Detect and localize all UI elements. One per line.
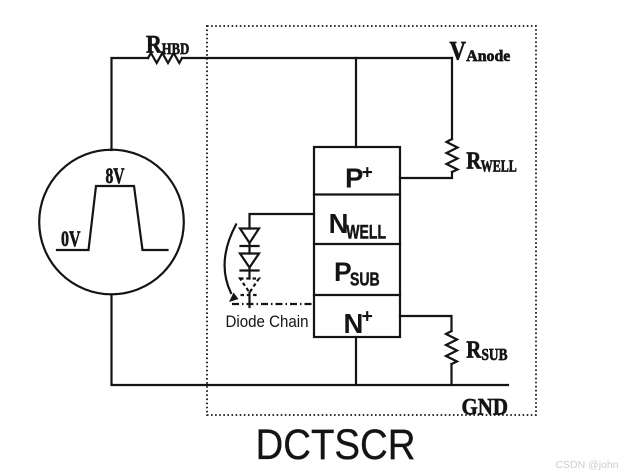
- svg-text:R: R: [146, 31, 163, 58]
- svg-text:0V: 0V: [61, 226, 81, 251]
- diode chain arrow arc: [225, 225, 236, 294]
- svg-text:Anode: Anode: [466, 48, 510, 65]
- DCTSCR dashed boundary box: [207, 26, 536, 415]
- wire R_WELL bottom to P+ right side: [400, 172, 452, 178]
- svg-text:V: V: [450, 36, 467, 66]
- N_WELL/P_SUB boundary: [314, 243, 400, 245]
- wire D3 stub: [248, 293, 250, 308]
- resistor R_HBD: [148, 53, 182, 63]
- svg-text:HBD: HBD: [162, 41, 189, 58]
- svg-text:N: N: [344, 308, 364, 339]
- svg-text:8V: 8V: [106, 163, 125, 188]
- diode D1: [240, 229, 259, 247]
- pulse waveform: [57, 186, 168, 250]
- svg-text:+: +: [362, 162, 373, 183]
- resistor R_SUB: [446, 331, 457, 364]
- svg-text:SUB: SUB: [482, 345, 508, 364]
- wire D1 to D2: [248, 243, 250, 254]
- svg-text:CSDN @john: CSDN @john: [556, 459, 619, 471]
- svg-text:DCTSCR: DCTSCR: [256, 421, 416, 469]
- wire R_HBD to V_Anode node: [182, 57, 452, 59]
- wire source bottom to ground rail: [112, 295, 509, 386]
- wire N+ right to R_SUB: [400, 316, 452, 331]
- svg-text:Diode Chain: Diode Chain: [226, 313, 309, 331]
- wire R_SUB bottom: [450, 364, 452, 385]
- wire anode node down to P+ region: [355, 58, 357, 147]
- voltage pulse source V1: [39, 150, 184, 295]
- svg-text:WELL: WELL: [346, 223, 386, 244]
- svg-text:+: +: [362, 306, 373, 328]
- svg-text:R: R: [466, 337, 481, 364]
- wire source top to R_HBD: [112, 58, 149, 150]
- svg-text:SUB: SUB: [350, 269, 380, 290]
- wire N_WELL left to diode chain: [250, 214, 315, 229]
- wire V_Anode down to R_WELL: [451, 58, 453, 139]
- diode D2: [240, 254, 259, 271]
- resistor R_WELL: [447, 139, 458, 172]
- region stack outer box: [314, 147, 400, 337]
- svg-text:WELL: WELL: [481, 156, 517, 175]
- wire D2 to D3: [248, 268, 250, 279]
- svg-text:P: P: [345, 163, 363, 194]
- wire N+ bottom to ground rail: [355, 337, 357, 385]
- P+/N_WELL boundary: [314, 193, 400, 195]
- svg-text:R: R: [466, 148, 482, 174]
- diode chain arrowhead: [229, 293, 239, 303]
- P_SUB/N+ boundary: [314, 294, 400, 296]
- diode D3 dashed: [240, 279, 259, 296]
- dash-dot trigger line to N+: [232, 303, 314, 305]
- svg-text:GND: GND: [462, 395, 509, 421]
